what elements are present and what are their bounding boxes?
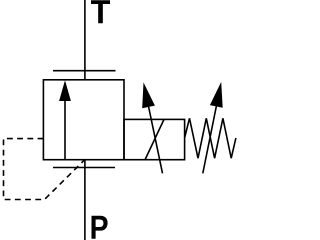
valve body envelope: [43, 80, 124, 160]
flow path arrow (P to T): [59, 80, 71, 159]
node T port bar: [53, 70, 116, 72]
port label T: [91, 0, 110, 23]
solenoid adjustment arrow: [142, 82, 162, 173]
spring adjustment arrow: [203, 82, 223, 173]
wire T line: [84, 0, 86, 80]
wire P line: [84, 160, 86, 240]
node P port bar: [53, 167, 115, 169]
solenoid diagonal stroke: [145, 119, 164, 159]
spring: [185, 118, 236, 158]
pilot line (dashed): [4, 139, 84, 200]
port label P: [92, 216, 108, 239]
proportional solenoid body: [124, 119, 185, 159]
